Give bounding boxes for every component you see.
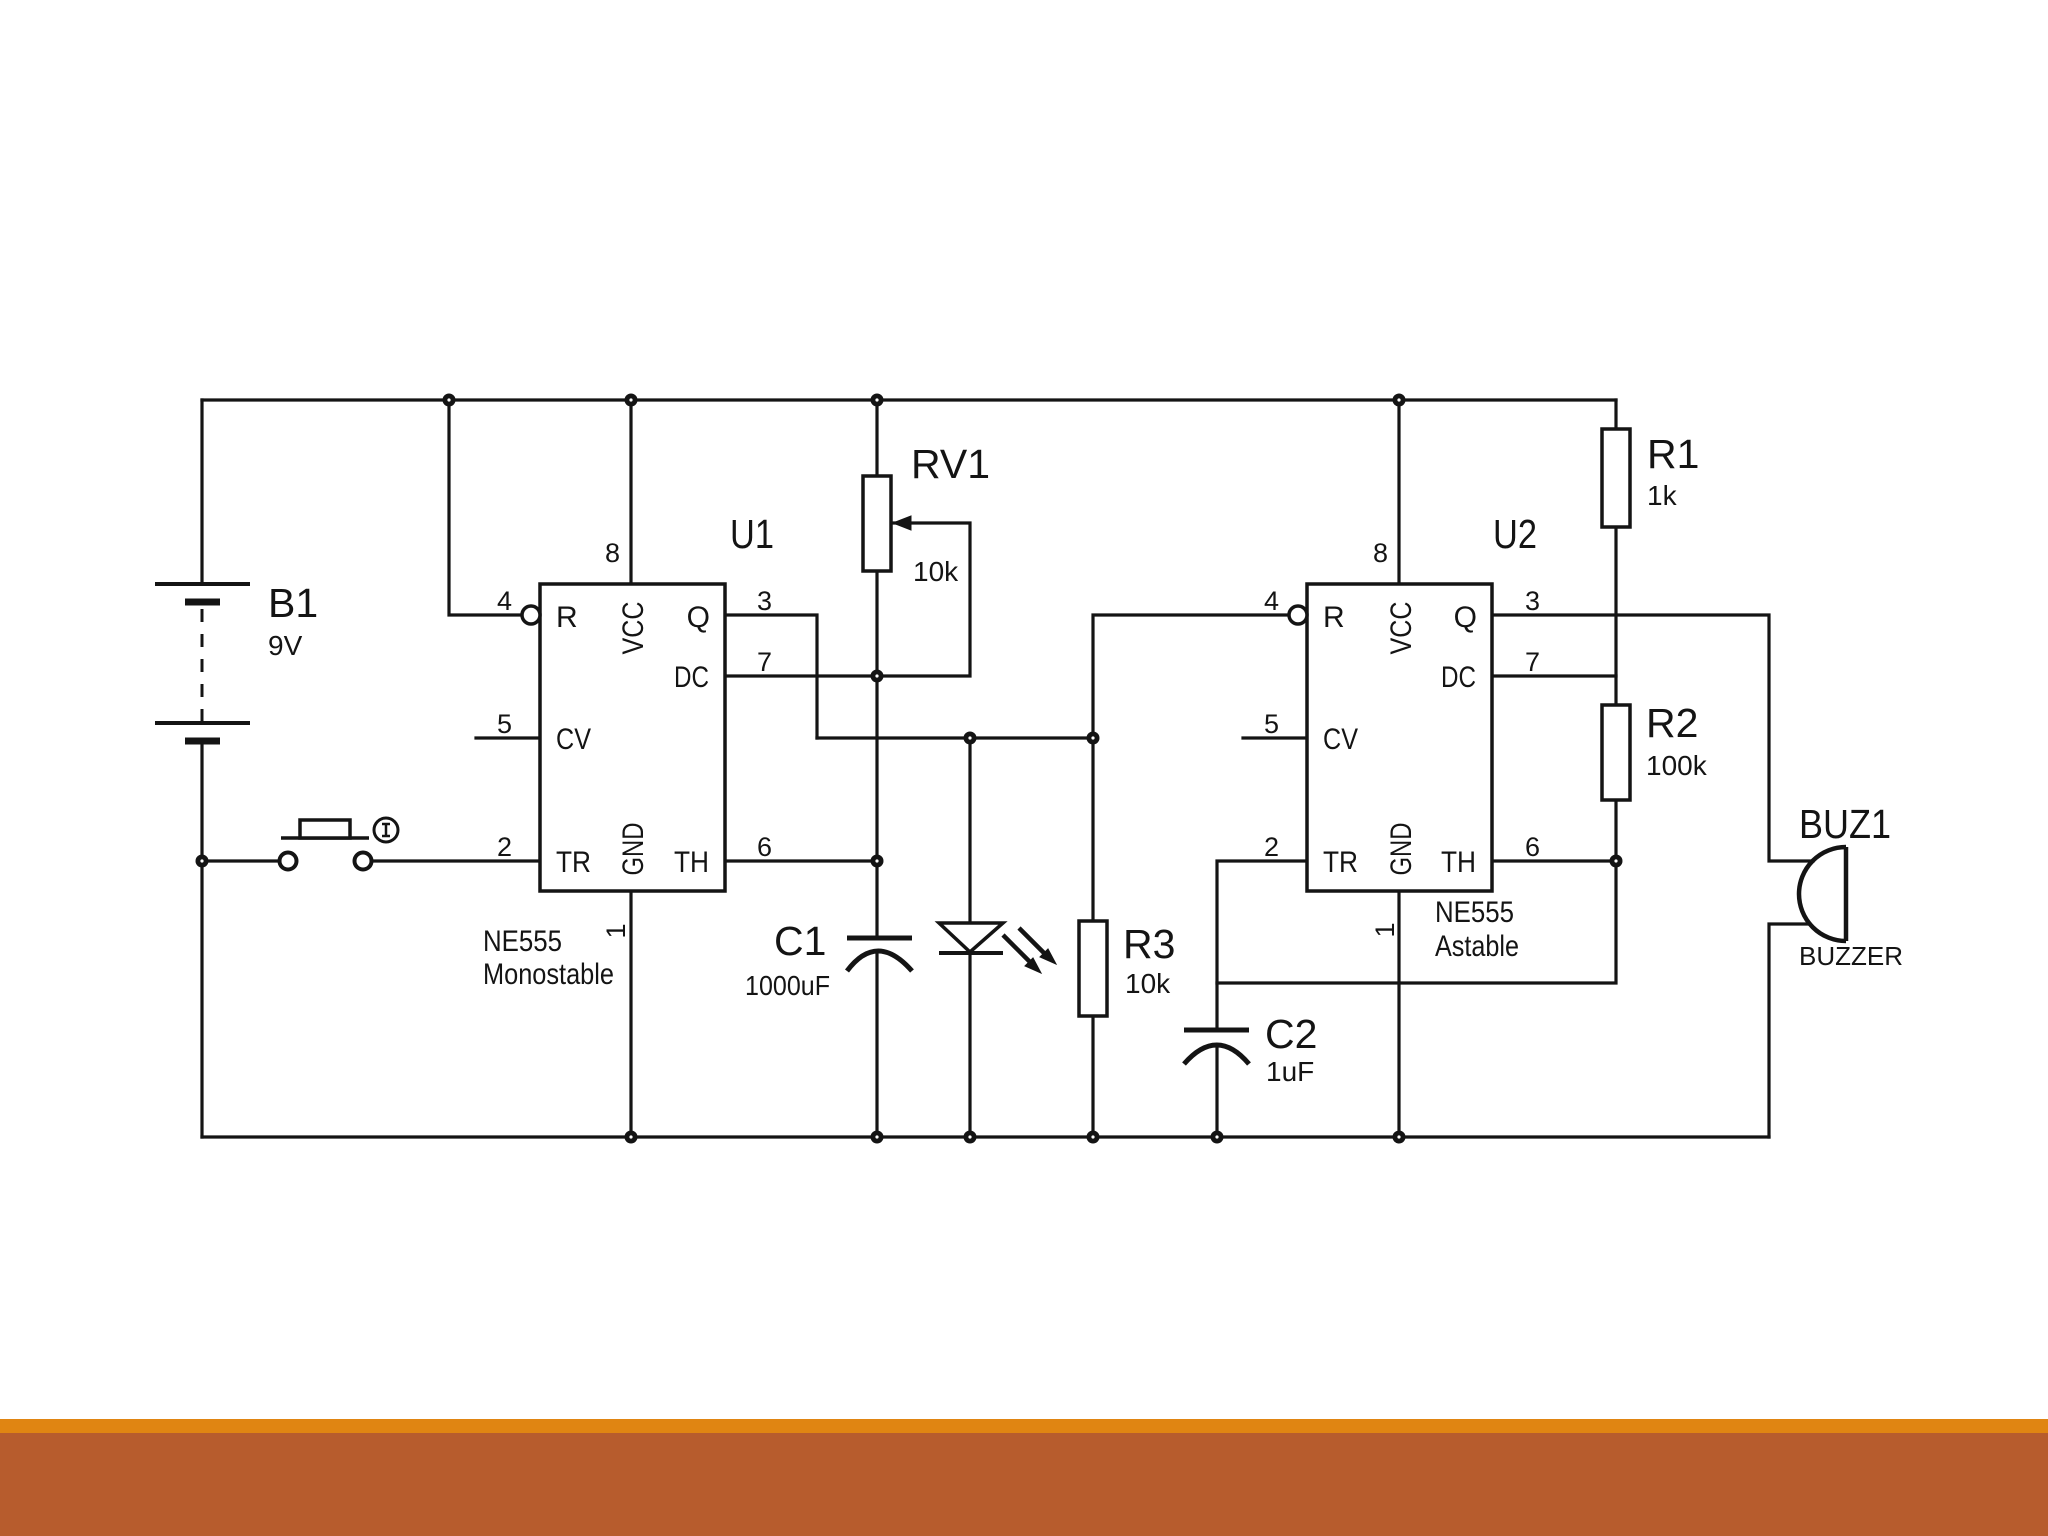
svg-text:CV: CV (556, 723, 591, 756)
node dot ground/R3 (1087, 1131, 1100, 1144)
node dot ground/LED (964, 1131, 977, 1144)
wire TH node to C1 (875, 861, 878, 938)
wire R2 bottom to TH node (1614, 800, 1617, 861)
node dot rail/RV1 (871, 394, 884, 407)
resistor R3 (1079, 921, 1107, 1016)
wire buzzer bottom to ground rail (1769, 924, 1810, 1137)
capacitor C2 (polarized) (1184, 1030, 1249, 1064)
wire left rail lower (battery -) (200, 743, 203, 1137)
svg-text:RV1: RV1 (911, 441, 990, 487)
svg-text:2: 2 (1264, 832, 1279, 862)
wire U1 Q output route pin 3 (725, 615, 817, 738)
wire left rail upper (battery +) (200, 400, 203, 584)
svg-text:NE555: NE555 (483, 925, 562, 958)
capacitor C1 (polarized) (847, 938, 912, 971)
svg-text:3: 3 (1525, 586, 1540, 616)
wire U1 CV stub pin 5 (476, 736, 540, 739)
node dot rail/U1 VCC (625, 394, 638, 407)
svg-text:BUZ1: BUZ1 (1799, 801, 1891, 847)
svg-text:6: 6 (757, 832, 772, 862)
svg-text:DC: DC (674, 661, 709, 694)
svg-text:Monostable: Monostable (483, 958, 614, 991)
svg-text:9V: 9V (268, 630, 303, 661)
wire LED cathode to ground rail (968, 953, 971, 1137)
wire feedback TH/TR link (1217, 861, 1616, 983)
buzzer BUZ1 (1799, 847, 1846, 941)
node dot Q-node/LED (964, 732, 977, 745)
svg-text:3: 3 (757, 586, 772, 616)
wire U2 Q route to buzzer (1492, 615, 1813, 861)
wire button to U1 TR pin 2 (373, 859, 540, 862)
node dot R2/U2 TH (1610, 855, 1623, 868)
svg-text:1: 1 (601, 923, 631, 938)
svg-text:8: 8 (1373, 538, 1388, 568)
svg-text:TH: TH (1441, 846, 1476, 879)
svg-text:VCC: VCC (1385, 602, 1418, 655)
svg-text:C1: C1 (774, 918, 826, 964)
svg-text:U1: U1 (730, 511, 774, 557)
wire R3 top drop (1091, 738, 1094, 921)
svg-text:4: 4 (497, 586, 512, 616)
resistor R2 (1602, 705, 1630, 800)
op-amp U2 (NE555 timer box) (1307, 584, 1492, 891)
wire C2 to ground rail (1215, 1046, 1218, 1137)
op-amp U1 (NE555 timer box) (540, 584, 725, 891)
node dot RV1/TH (871, 855, 884, 868)
node dot ground/U2 GND (1393, 1131, 1406, 1144)
wire U2 reset route pin 4 (1093, 615, 1289, 738)
wire U1 VCC drop (629, 400, 632, 584)
wire U2 CV stub pin 5 (1243, 736, 1307, 739)
svg-text:5: 5 (1264, 709, 1279, 739)
svg-text:R: R (556, 601, 578, 634)
svg-text:1k: 1k (1647, 480, 1678, 511)
svg-text:Astable: Astable (1435, 930, 1519, 963)
wire node Q-LED-R3 horizontal (817, 736, 1093, 739)
svg-text:GND: GND (1385, 823, 1418, 876)
wire LED anode drop (968, 738, 971, 923)
wire top power rail (202, 398, 1616, 401)
svg-text:DC: DC (1441, 661, 1476, 694)
svg-text:1uF: 1uF (1266, 1056, 1314, 1087)
svg-text:2: 2 (497, 832, 512, 862)
wire RV1 top drop (875, 400, 878, 476)
node dot battery/button (196, 855, 209, 868)
svg-text:10k: 10k (1125, 968, 1171, 999)
wire bottom ground rail (202, 1135, 1769, 1138)
svg-text:R: R (1323, 601, 1345, 634)
svg-text:1000uF: 1000uF (745, 970, 830, 1001)
svg-text:R2: R2 (1646, 700, 1698, 746)
svg-text:Q: Q (1454, 601, 1477, 634)
svg-text:BUZZER: BUZZER (1799, 941, 1903, 971)
wire rail corner into R1 (1614, 400, 1617, 429)
potentiometer RV1 (863, 476, 911, 571)
wire R1 to R2 link (1614, 527, 1617, 705)
node dot ground/C2 (1211, 1131, 1224, 1144)
wire C1 to ground rail (875, 954, 878, 1137)
wire U2 GND pin 1 drop (1397, 891, 1400, 1137)
wire U1 reset drop from rail (449, 400, 522, 615)
wire U2 VCC drop (1397, 400, 1400, 585)
svg-text:10k: 10k (913, 556, 959, 587)
wire RV1 wiper loop (877, 523, 970, 676)
node dot Q-node/R3 (1087, 732, 1100, 745)
node dot ground/U1 GND (625, 1131, 638, 1144)
LED D1 (939, 923, 1056, 973)
svg-text:C2: C2 (1265, 1011, 1317, 1057)
svg-text:6: 6 (1525, 832, 1540, 862)
svg-text:CV: CV (1323, 723, 1358, 756)
wire U2 TH pin 6 (1492, 859, 1616, 862)
wire U1 TH pin 6 (725, 859, 877, 862)
svg-text:TR: TR (1323, 846, 1358, 879)
svg-text:1: 1 (1370, 922, 1400, 937)
wire U1 DC pin 7 to RV1 (725, 674, 877, 677)
wire battery to button (202, 859, 278, 862)
node dot ground/C1 (871, 1131, 884, 1144)
svg-text:GND: GND (617, 823, 650, 876)
resistor R1 (1602, 429, 1630, 527)
wire U2 DC pin 7 to R1/R2 (1492, 674, 1616, 677)
svg-text:8: 8 (605, 538, 620, 568)
svg-text:R3: R3 (1123, 921, 1175, 967)
battery B1 (155, 584, 250, 741)
node dot rail/U2 VCC (1393, 394, 1406, 407)
svg-text:TH: TH (674, 846, 709, 879)
wire R3 to ground rail (1091, 1016, 1094, 1137)
U2 reset bubble pin 4 (1289, 606, 1307, 624)
node dot rail/U1 reset (443, 394, 456, 407)
svg-text:U2: U2 (1493, 511, 1537, 557)
wire U1 GND pin 1 drop (629, 891, 632, 1137)
svg-text:4: 4 (1264, 586, 1279, 616)
wire U2 TR route pin 2 to C2 (1217, 861, 1307, 1030)
push button SW (280, 818, 399, 870)
svg-text:B1: B1 (268, 580, 318, 626)
node dot RV1 wiper/DC (871, 670, 884, 683)
svg-text:NE555: NE555 (1435, 896, 1514, 929)
svg-text:7: 7 (1525, 647, 1540, 677)
svg-text:100k: 100k (1646, 750, 1708, 781)
wire RV1 bottom to TH node (875, 571, 878, 861)
svg-text:5: 5 (497, 709, 512, 739)
svg-text:7: 7 (757, 647, 772, 677)
U1 reset bubble pin 4 (522, 606, 540, 624)
svg-text:TR: TR (556, 846, 591, 879)
svg-text:VCC: VCC (617, 602, 650, 655)
svg-text:Q: Q (687, 601, 710, 634)
svg-text:R1: R1 (1647, 431, 1699, 477)
